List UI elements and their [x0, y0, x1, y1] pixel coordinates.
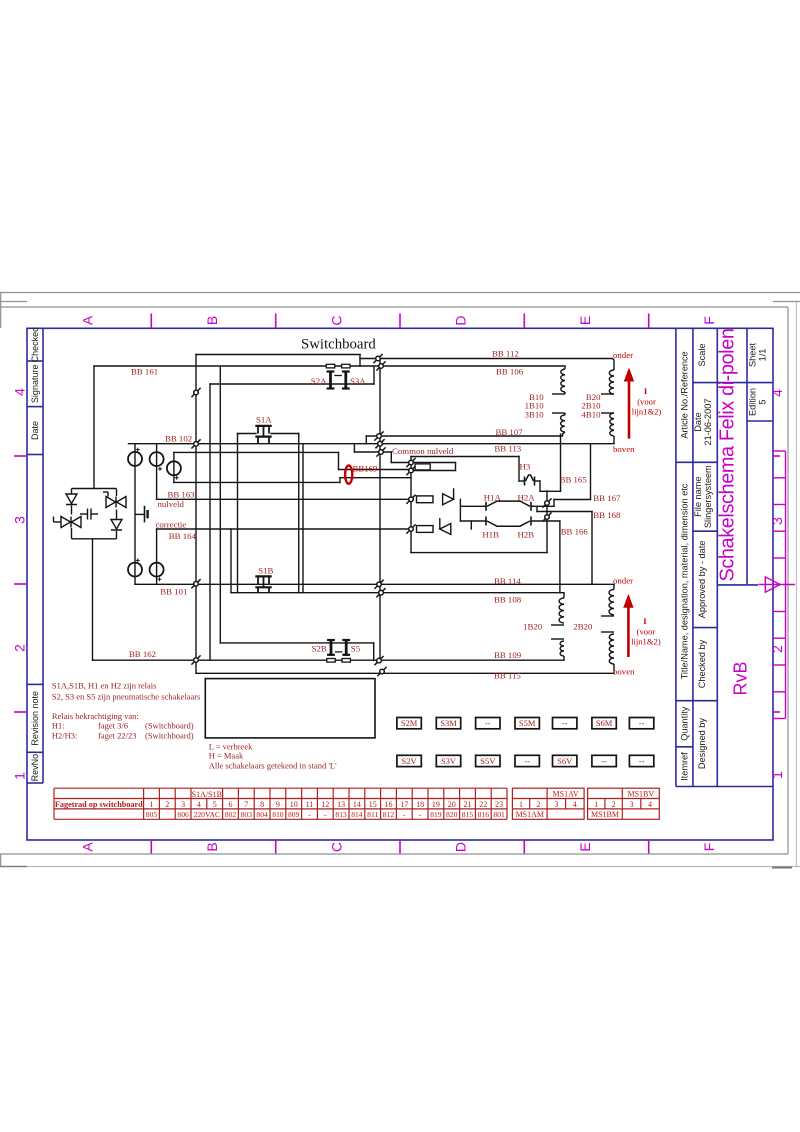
- terminal crossing at 381,452: [376, 447, 385, 456]
- svg-text:BB 167: BB 167: [593, 493, 621, 503]
- svg-text:Date: Date: [30, 421, 40, 440]
- svg-text:2: 2: [612, 800, 616, 809]
- wire jog down 2: [390, 452, 392, 463]
- svg-text:MS1AM: MS1AM: [516, 810, 544, 819]
- wire S1A box top r: [271, 433, 299, 435]
- svg-text:E: E: [577, 316, 593, 325]
- svg-text:--: --: [524, 756, 530, 766]
- svg-text:--: --: [562, 718, 568, 728]
- svg-text:Checked: Checked: [30, 327, 40, 363]
- table faget wiring: [54, 788, 507, 819]
- svg-text:BB 114: BB 114: [494, 576, 521, 586]
- svg-text:Sheet: Sheet: [748, 343, 758, 367]
- transducer circle cD: [128, 563, 142, 577]
- svg-text:Relais bekrachtiging van:: Relais bekrachtiging van:: [52, 711, 139, 721]
- svg-text:803: 803: [241, 810, 253, 819]
- coil T1 right winding bottom section: [610, 413, 614, 436]
- wire BB115 box bottom: [196, 672, 614, 674]
- svg-text:H = Maak: H = Maak: [209, 751, 244, 761]
- wire BB169 lower: [340, 477, 411, 479]
- svg-text:4B10: 4B10: [581, 409, 601, 419]
- terminal crossing at 411,470.5: [406, 466, 415, 475]
- svg-text:H1A: H1A: [484, 492, 502, 502]
- svg-text:813: 813: [335, 810, 347, 819]
- state box S5V: [476, 755, 500, 766]
- svg-text:C: C: [328, 842, 344, 852]
- left column labels: [30, 327, 40, 782]
- svg-text:H2B: H2B: [518, 530, 535, 540]
- coil T1 right tap stubs: [601, 393, 614, 395]
- svg-text:BB 168: BB 168: [593, 510, 621, 520]
- svg-text:S6V: S6V: [557, 756, 573, 766]
- wire relay box top: [411, 456, 519, 458]
- svg-text:Fagetrad op switchboard: Fagetrad op switchboard: [55, 800, 143, 809]
- svg-text:BB169: BB169: [353, 463, 379, 473]
- transformer coils: [551, 359, 614, 674]
- title block labels: [680, 343, 768, 781]
- svg-text:1: 1: [594, 800, 598, 809]
- svg-text:BB 166: BB 166: [561, 527, 589, 537]
- svg-text:B: B: [204, 316, 220, 325]
- wire BB165 riser coil: [560, 434, 562, 491]
- terminal crossing at 380,443.7: [375, 439, 384, 448]
- svg-text:-: -: [308, 810, 311, 819]
- svg-text:BB 112: BB 112: [492, 349, 519, 359]
- svg-text:-: -: [419, 810, 422, 819]
- svg-text:H3: H3: [520, 462, 531, 472]
- transducer circle c3: [167, 461, 181, 475]
- terminal crossing at 547,517: [542, 512, 551, 521]
- svg-text:20: 20: [448, 800, 456, 809]
- terminal crossing at 378,358.5: [373, 354, 382, 363]
- svg-text:18: 18: [416, 800, 424, 809]
- svg-text:onder: onder: [613, 575, 633, 585]
- svg-text:S2M: S2M: [401, 718, 418, 728]
- arrow I line1-2 top: [624, 368, 634, 439]
- svg-text:H2/H3:: H2/H3:: [52, 731, 78, 741]
- terminal crossing at 381,366: [376, 361, 385, 370]
- terminal crossing at 196,443.9: [191, 439, 200, 448]
- svg-text:onder: onder: [613, 350, 633, 360]
- wire H1A feed: [459, 499, 461, 521]
- state box S6V: [553, 755, 577, 766]
- svg-text:lijn1&2): lijn1&2): [631, 637, 661, 647]
- connector block: [415, 464, 430, 470]
- wire common nulveld A: [391, 462, 455, 464]
- svg-text:Schakelschema Felix di-polen: Schakelschema Felix di-polen: [717, 328, 739, 581]
- wire BB112: [360, 358, 613, 360]
- svg-text:S2B: S2B: [312, 643, 327, 653]
- wire vertical x210: [209, 384, 211, 660]
- svg-text:S1A/S1B: S1A/S1B: [192, 790, 222, 799]
- wire BB107 riser: [365, 436, 367, 444]
- svg-text:Revision note: Revision note: [30, 691, 40, 746]
- svg-text:12: 12: [321, 800, 329, 809]
- svg-text:Scale: Scale: [697, 344, 707, 367]
- svg-text:C: C: [328, 315, 344, 325]
- wire relay box bottom: [411, 552, 547, 554]
- svg-text:faget 22/23: faget 22/23: [98, 731, 136, 741]
- svg-text:S1A,S1B, H1 en H2 zijn relais: S1A,S1B, H1 en H2 zijn relais: [52, 681, 157, 691]
- svg-text:BB 107: BB 107: [496, 427, 524, 437]
- svg-text:3: 3: [12, 516, 28, 524]
- state box --: [515, 755, 539, 766]
- svg-text:S1B: S1B: [258, 566, 273, 576]
- svg-text:Itemref: Itemref: [680, 752, 690, 781]
- wire circle3 riser: [173, 452, 175, 482]
- wire BB167 up: [590, 444, 592, 500]
- coil T2 left tap stubs: [551, 624, 564, 626]
- wire BB161 left drop: [93, 366, 95, 489]
- svg-text:4: 4: [769, 389, 785, 397]
- svg-text:21-06-2007: 21-06-2007: [703, 399, 713, 446]
- svg-text:RevNo: RevNo: [30, 754, 40, 782]
- state box --: [476, 718, 500, 729]
- wire BB169 lift: [339, 478, 341, 483]
- transducer circle c2: [150, 452, 164, 466]
- contact H3: [524, 477, 526, 486]
- svg-text:3B10: 3B10: [525, 409, 545, 419]
- wire H3 out: [535, 480, 541, 482]
- wire S2B top feed: [220, 642, 373, 644]
- wire H2A out: [532, 505, 555, 507]
- state box S3M: [436, 718, 460, 729]
- svg-text:D: D: [453, 842, 469, 852]
- wire circle1 branch: [134, 444, 136, 585]
- notes text block: [52, 681, 337, 771]
- svg-text:lijn1&2): lijn1&2): [632, 407, 662, 417]
- svg-text:2B20: 2B20: [573, 622, 593, 632]
- diode D4: [440, 518, 451, 535]
- svg-text:5: 5: [213, 800, 217, 809]
- wire S2B feed riser: [373, 643, 375, 660]
- svg-text:S5: S5: [351, 643, 361, 653]
- wire correctie drop: [156, 529, 158, 584]
- wire S1A box right: [298, 434, 300, 593]
- wire BB169 drop: [338, 452, 340, 469]
- svg-text:S2, S3 en S5 zijn pneumatische: S2, S3 en S5 zijn pneumatische schakelaa…: [52, 692, 200, 702]
- svg-text:220VAC: 220VAC: [194, 810, 220, 819]
- coil T1 left winding bottom section: [561, 415, 565, 432]
- wire BB108 net: [231, 592, 560, 594]
- svg-text:2: 2: [769, 645, 785, 653]
- svg-text:1: 1: [150, 800, 154, 809]
- svg-text:Quantity: Quantity: [680, 706, 690, 741]
- svg-text:820: 820: [446, 810, 458, 819]
- wire bridge out drop: [92, 539, 94, 660]
- svg-text:805: 805: [146, 810, 158, 819]
- svg-text:BB 162: BB 162: [129, 649, 156, 659]
- empty notes box: [205, 679, 375, 738]
- svg-text:3: 3: [769, 517, 785, 525]
- svg-text:BB 101: BB 101: [160, 587, 187, 597]
- svg-text:H2A: H2A: [518, 492, 536, 502]
- svg-text:809: 809: [288, 810, 300, 819]
- wire BB167 riser: [553, 500, 555, 507]
- coil T2 right winding top section: [609, 589, 614, 614]
- svg-text:F: F: [701, 843, 717, 852]
- svg-text:BB 102: BB 102: [165, 434, 192, 444]
- terminal crossing at 196,583.8: [191, 579, 200, 588]
- wire BB167: [554, 499, 591, 501]
- svg-text:1: 1: [12, 772, 28, 780]
- svg-text:boven: boven: [613, 444, 635, 454]
- wire S1A box top l: [238, 433, 257, 435]
- wire relay box left: [410, 457, 412, 553]
- wire BB166 down: [559, 521, 561, 593]
- wire H1A lead: [460, 505, 485, 507]
- svg-text:23: 23: [495, 800, 503, 809]
- svg-text:S2A: S2A: [311, 376, 327, 386]
- svg-text:BB 106: BB 106: [496, 367, 524, 377]
- terminal crossing at 411,529: [406, 524, 415, 533]
- svg-text:-: -: [403, 810, 406, 819]
- svg-text:A: A: [80, 842, 96, 852]
- svg-text:Article No./Reference: Article No./Reference: [680, 351, 690, 438]
- wire H2B out: [532, 520, 560, 522]
- terminal crossing at 379,584.3: [374, 580, 383, 589]
- thyristor bridge block: [54, 489, 127, 539]
- wire H3 drop: [518, 457, 520, 482]
- wire H1B feed2: [470, 521, 472, 529]
- svg-text:7: 7: [244, 800, 248, 809]
- wire circle2 branch: [156, 444, 158, 500]
- wire BB165: [540, 490, 561, 492]
- coil T2 right tap stubs: [601, 615, 614, 617]
- wire BB161-BB106 net: [94, 365, 565, 367]
- svg-text:File name: File name: [693, 477, 703, 517]
- svg-text:(Switchboard): (Switchboard): [145, 731, 194, 741]
- coil T2 right winding bottom section: [609, 634, 614, 664]
- svg-text:19: 19: [432, 800, 440, 809]
- terminal crossing at 381,592.7: [376, 588, 385, 597]
- svg-text:801: 801: [493, 810, 505, 819]
- table MS1BV: [588, 788, 660, 819]
- terminal crossing at 547,503: [542, 498, 551, 507]
- svg-text:(voor: (voor: [637, 397, 656, 407]
- svg-text:nulveld: nulveld: [158, 499, 185, 509]
- coil T1 left tap stubs: [552, 393, 565, 395]
- svg-text:(Switchboard): (Switchboard): [145, 721, 194, 731]
- svg-text:--: --: [485, 718, 491, 728]
- svg-text:H1:: H1:: [52, 721, 65, 731]
- svg-text:1: 1: [769, 771, 785, 779]
- svg-text:I: I: [644, 386, 648, 396]
- svg-text:3: 3: [554, 800, 558, 809]
- terminal slash symbols: [191, 354, 551, 676]
- svg-text:H1B: H1B: [482, 530, 499, 540]
- svg-text:--: --: [639, 718, 645, 728]
- fuse F2: [417, 526, 434, 533]
- svg-text:BB 161: BB 161: [131, 367, 158, 377]
- svg-text:BB 108: BB 108: [494, 595, 522, 605]
- coil T1 right winding top section: [609, 370, 614, 394]
- terminal crossing at 196,392.5: [191, 388, 200, 397]
- contact H1B-H2B: [485, 517, 487, 526]
- svg-text:--: --: [639, 756, 645, 766]
- scan sheet edge marks: [0, 293, 800, 868]
- svg-text:faget 3/6: faget 3/6: [98, 721, 128, 731]
- pneumatic switch S2B / S5: [327, 659, 335, 663]
- wire y384 S2A feed: [210, 383, 374, 385]
- wire vertical x220: [219, 366, 221, 643]
- wire S1A box left: [237, 434, 239, 593]
- terminal crossing at 382,671.5: [377, 667, 386, 676]
- state box --: [629, 755, 653, 766]
- wire box top edge: [196, 354, 360, 356]
- projection symbol triangle: [765, 577, 780, 592]
- svg-text:--: --: [601, 756, 607, 766]
- svg-text:819: 819: [430, 810, 442, 819]
- wire BB168 down: [591, 512, 593, 585]
- terminal crossing at 411,462.5: [406, 458, 415, 467]
- svg-text:correctie: correctie: [156, 519, 187, 529]
- coil T2 left winding top section: [559, 598, 564, 623]
- svg-text:810: 810: [272, 810, 284, 819]
- svg-text:S3V: S3V: [441, 756, 457, 766]
- svg-text:Approved by - date: Approved by - date: [697, 541, 707, 619]
- svg-text:14: 14: [353, 800, 361, 809]
- svg-text:4: 4: [573, 800, 577, 809]
- wire common nulveld B: [411, 470, 456, 472]
- svg-text:BB 165: BB 165: [560, 474, 588, 484]
- transducer circle cE: [150, 563, 164, 577]
- svg-text:2: 2: [536, 800, 540, 809]
- svg-text:812: 812: [383, 810, 395, 819]
- diode D1 top-left: [66, 494, 77, 505]
- svg-text:A: A: [80, 315, 96, 325]
- state box S2V: [397, 755, 421, 766]
- svg-text:E: E: [577, 842, 593, 851]
- svg-text:D: D: [453, 315, 469, 325]
- wire common nulveld end: [455, 463, 457, 471]
- highlight oval BB169: [345, 465, 352, 483]
- wire riser x374: [373, 366, 375, 384]
- svg-text:15: 15: [369, 800, 377, 809]
- wire BB169 upper: [339, 469, 412, 471]
- wire H3 lead: [519, 480, 524, 482]
- svg-text:Title/Name, designation, mater: Title/Name, designation, material, dimen…: [680, 483, 690, 679]
- svg-text:22: 22: [479, 800, 487, 809]
- fuse F1: [417, 496, 434, 503]
- coil T2 left winding bottom section: [560, 641, 564, 656]
- svg-text:S3A: S3A: [350, 376, 366, 386]
- svg-text:4: 4: [197, 800, 201, 809]
- zone reference letters and numbers: [12, 315, 786, 852]
- svg-text:16: 16: [385, 800, 393, 809]
- wire H3 corner: [539, 481, 541, 491]
- svg-text:8: 8: [260, 800, 264, 809]
- svg-text:Edition: Edition: [748, 388, 758, 416]
- svg-text:BB 109: BB 109: [494, 650, 522, 660]
- svg-text:S3M: S3M: [440, 718, 457, 728]
- svg-text:BB 164: BB 164: [169, 531, 197, 541]
- svg-text:B: B: [204, 842, 220, 851]
- svg-text:MS1BM: MS1BM: [591, 810, 619, 819]
- terminal crossing at 411,499.3: [406, 495, 415, 504]
- svg-text:21: 21: [464, 800, 472, 809]
- wire circle3 bottom: [174, 481, 340, 483]
- wire circle3 top: [174, 451, 339, 453]
- svg-text:BB 113: BB 113: [494, 444, 521, 454]
- svg-text:F: F: [701, 316, 717, 325]
- svg-text:S5M: S5M: [519, 718, 536, 728]
- wire BB168 stub: [536, 506, 538, 511]
- terminal crossing at 379,660.6: [374, 656, 383, 665]
- pneumatic switch S2A / S3A: [326, 364, 334, 368]
- state box S2M: [397, 718, 421, 729]
- capacitor C1: [80, 513, 88, 515]
- coil T1 left winding top section: [561, 369, 565, 392]
- svg-text:804: 804: [256, 810, 268, 819]
- terminal crossing at 379,436: [374, 431, 383, 440]
- wire BB164 correctie: [157, 528, 411, 530]
- magenta ladder strip outside right frame: [758, 451, 795, 719]
- svg-text:4: 4: [648, 800, 652, 809]
- svg-text:Signature: Signature: [30, 365, 40, 404]
- svg-text:Date: Date: [693, 412, 703, 431]
- svg-text:Common nulveld: Common nulveld: [392, 446, 454, 456]
- svg-text:814: 814: [351, 810, 363, 819]
- thyristor pair Q1 bottom-left: [61, 517, 81, 528]
- wire jog at x360: [359, 355, 361, 367]
- svg-text:Checked by: Checked by: [697, 639, 707, 688]
- svg-text:816: 816: [478, 810, 490, 819]
- terminal crossing at 196,660: [191, 655, 200, 664]
- nulveld reference symbol: [135, 506, 148, 523]
- wire main vertical x380: [379, 359, 381, 661]
- svg-text:806: 806: [177, 810, 189, 819]
- state box --: [553, 718, 577, 729]
- svg-text:1: 1: [519, 800, 523, 809]
- svg-text:5: 5: [758, 399, 768, 404]
- svg-text:10: 10: [290, 800, 298, 809]
- svg-text:S5V: S5V: [480, 756, 496, 766]
- arrow I line1-2 bottom: [623, 594, 633, 657]
- svg-text:RvB: RvB: [731, 661, 751, 695]
- schematic wires: [93, 355, 615, 674]
- svg-text:1/1: 1/1: [758, 349, 768, 362]
- svg-text:2: 2: [12, 644, 28, 652]
- svg-text:-: -: [324, 810, 327, 819]
- net labels: [129, 349, 635, 681]
- svg-text:Alle schakelaars getekend in s: Alle schakelaars getekend in stand 'L': [209, 761, 337, 771]
- wire BB163 nulveld: [157, 498, 411, 500]
- wire jog horizontal: [354, 451, 391, 453]
- wire BB108 riser left: [230, 529, 232, 593]
- transducer circle c1: [128, 452, 142, 466]
- svg-text:6: 6: [229, 800, 233, 809]
- wire relay box right: [546, 491, 548, 553]
- svg-text:Switchboard: Switchboard: [301, 337, 376, 353]
- svg-text:17: 17: [400, 800, 408, 809]
- wire BB162-BB109 net: [93, 659, 565, 661]
- svg-text:MS1AV: MS1AV: [553, 789, 579, 798]
- wire BB102-BB113 net: [129, 443, 615, 445]
- state box S3V: [436, 755, 460, 766]
- svg-text:Designed by: Designed by: [697, 718, 707, 769]
- svg-text:3: 3: [181, 800, 185, 809]
- state box --: [592, 755, 616, 766]
- thyristor pair Q2 top-right: [106, 497, 126, 508]
- svg-text:boven: boven: [613, 667, 635, 677]
- table MS1AV: [512, 788, 584, 819]
- svg-text:S2V: S2V: [402, 756, 418, 766]
- svg-text:BB 115: BB 115: [494, 671, 521, 681]
- diode D3: [443, 488, 454, 505]
- svg-text:802: 802: [225, 810, 237, 819]
- svg-text:4: 4: [12, 388, 28, 396]
